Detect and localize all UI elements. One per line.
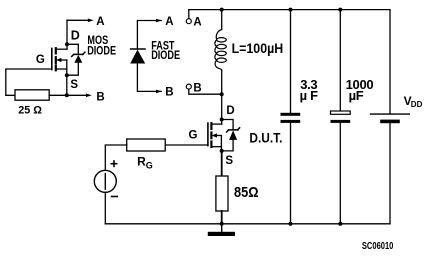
- svg-text:A: A: [165, 16, 173, 28]
- svg-text:S: S: [225, 155, 233, 167]
- svg-text:A: A: [193, 16, 201, 28]
- svg-text:D.U.T.: D.U.T.: [249, 130, 282, 146]
- svg-text:R: R: [137, 155, 146, 169]
- svg-text:B: B: [165, 87, 173, 99]
- svg-text:S: S: [70, 79, 78, 91]
- svg-text:D: D: [226, 105, 234, 117]
- svg-text:B: B: [96, 92, 104, 104]
- svg-text:µ F: µ F: [300, 88, 319, 103]
- svg-text:D: D: [71, 29, 80, 43]
- svg-text:DIODE: DIODE: [151, 49, 180, 63]
- svg-text:µF: µF: [349, 88, 364, 103]
- svg-text:DD: DD: [411, 100, 423, 109]
- svg-text:85Ω: 85Ω: [234, 183, 259, 200]
- svg-text:SC06010: SC06010: [362, 240, 393, 251]
- svg-text:G: G: [146, 161, 153, 171]
- svg-text:A: A: [96, 16, 104, 28]
- svg-text:G: G: [189, 130, 198, 142]
- svg-text:L=100µH: L=100µH: [232, 40, 284, 56]
- svg-text:B: B: [193, 82, 201, 94]
- svg-text:G: G: [36, 54, 45, 66]
- svg-text:25 Ω: 25 Ω: [18, 105, 42, 117]
- svg-text:DIODE: DIODE: [87, 44, 116, 58]
